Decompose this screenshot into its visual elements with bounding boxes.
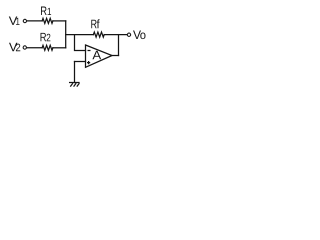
op-amp non-inverting pin mark bbox=[87, 61, 90, 64]
label V2 bbox=[9, 43, 20, 51]
resistor Rf bbox=[93, 32, 104, 37]
wire non-inverting input bbox=[75, 61, 86, 63]
ground hatch 3 bbox=[77, 83, 80, 87]
ground hatch 2 bbox=[74, 83, 77, 87]
wire op-amp output bbox=[112, 55, 119, 57]
label V1 bbox=[9, 16, 20, 24]
label R2 bbox=[41, 33, 51, 41]
terminal V1 bbox=[23, 19, 26, 22]
resistor R2 bbox=[42, 45, 53, 50]
wire V1 input bbox=[27, 20, 42, 22]
resistor R1 bbox=[42, 18, 53, 23]
op-amp inverting pin mark bbox=[88, 50, 91, 52]
op-amp U1 triangle bbox=[86, 45, 113, 67]
wire feedback tap to Rf bbox=[66, 34, 94, 36]
wire output node vertical bbox=[118, 35, 120, 56]
label R1 bbox=[41, 7, 51, 15]
ground bar bbox=[70, 82, 79, 84]
wire R1 to summing bus bbox=[53, 20, 66, 22]
terminal Vo bbox=[127, 33, 130, 36]
wire R2 to summing bus bbox=[53, 47, 66, 49]
ground hatch 1 bbox=[70, 83, 73, 87]
label Vo bbox=[133, 31, 145, 40]
wire ground drop bbox=[74, 62, 76, 83]
label Rf bbox=[91, 19, 99, 28]
wire inverting input drop bbox=[75, 35, 86, 51]
label A bbox=[92, 51, 101, 59]
wire summing bus vertical bbox=[65, 21, 67, 48]
terminal V2 bbox=[23, 46, 26, 49]
wire V2 input bbox=[27, 47, 42, 49]
wire Rf to output node bbox=[104, 34, 127, 36]
